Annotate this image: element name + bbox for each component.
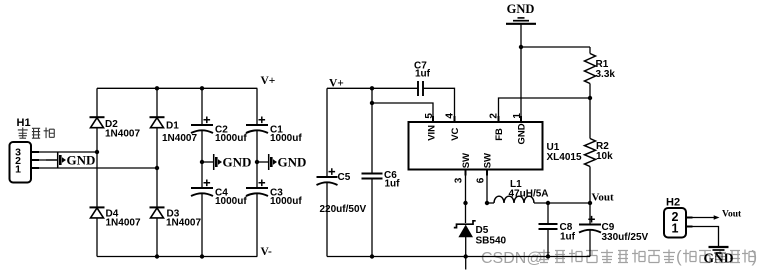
svg-text:1: 1 (672, 222, 679, 236)
svg-text:): ) (752, 247, 758, 266)
svg-text:GND: GND (517, 123, 528, 144)
svg-text:330uf/25V: 330uf/25V (602, 232, 649, 243)
svg-text:VC: VC (450, 127, 461, 140)
svg-text:6: 6 (475, 177, 486, 183)
svg-text:220uf/50V: 220uf/50V (320, 204, 367, 215)
svg-text:D5: D5 (476, 225, 489, 236)
svg-text:1N4007: 1N4007 (166, 218, 201, 229)
svg-text:(: ( (676, 247, 682, 266)
svg-text:Vout: Vout (722, 210, 742, 220)
svg-text:SW: SW (483, 153, 494, 168)
svg-text:1000uf: 1000uf (270, 196, 302, 207)
svg-text:GND: GND (507, 2, 535, 16)
svg-text:1N4007: 1N4007 (106, 218, 141, 229)
svg-text:1uf: 1uf (385, 179, 401, 190)
svg-text:1: 1 (15, 164, 21, 176)
svg-text:Vout: Vout (592, 192, 615, 204)
svg-text:FB: FB (494, 128, 505, 141)
svg-text:GND: GND (67, 153, 96, 168)
svg-text:CSDN: CSDN (481, 250, 526, 267)
svg-text:V-: V- (261, 246, 272, 258)
svg-text:1000uf: 1000uf (270, 133, 302, 144)
svg-text:D1: D1 (166, 121, 179, 132)
svg-text:3.3k: 3.3k (596, 69, 616, 80)
svg-text:GND: GND (704, 251, 734, 266)
svg-text:47uH/5A: 47uH/5A (509, 189, 549, 200)
svg-text:H2: H2 (666, 197, 680, 209)
svg-text:1000uf: 1000uf (215, 196, 247, 207)
svg-text:VIN: VIN (427, 125, 438, 141)
svg-text:1000uf: 1000uf (215, 133, 247, 144)
svg-text:1uf: 1uf (560, 232, 576, 243)
svg-text:GND: GND (278, 155, 307, 170)
svg-text:3: 3 (454, 177, 465, 183)
svg-text:SB540: SB540 (476, 236, 507, 247)
svg-text:V+: V+ (261, 75, 276, 87)
svg-text:10k: 10k (596, 151, 613, 162)
svg-text:1N4007: 1N4007 (162, 133, 197, 144)
svg-text:C5: C5 (338, 172, 351, 183)
svg-text:GND: GND (223, 155, 252, 170)
svg-text:H1: H1 (17, 117, 31, 129)
svg-text:SW: SW (461, 153, 472, 168)
svg-text:XL4015: XL4015 (547, 152, 582, 163)
svg-text:1uf: 1uf (415, 69, 431, 80)
svg-text:1N4007: 1N4007 (105, 129, 140, 140)
